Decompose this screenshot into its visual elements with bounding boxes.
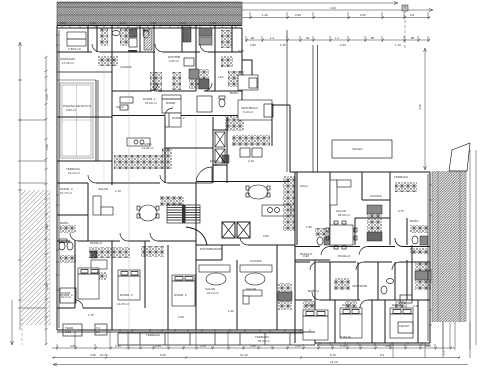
svg-text:1.20: 1.20 — [90, 21, 96, 25]
closet cabinet right — [221, 30, 232, 48]
svg-text:1.95: 1.95 — [210, 21, 216, 25]
svg-text:DORM.: DORM. — [392, 303, 402, 307]
elevators main — [222, 222, 250, 238]
left vertical dimension line x=12 bottom with arrow — [11, 300, 14, 345]
tables low center — [206, 273, 265, 285]
svg-text:2.40: 2.40 — [340, 43, 346, 47]
stairs main — [167, 205, 200, 223]
svg-text:P. BAJA: P. BAJA — [340, 335, 351, 339]
wall x=277 — [276, 245, 278, 330]
wall x=390 — [389, 172, 391, 245]
svg-text:2.10: 2.10 — [248, 159, 254, 163]
closet boxes right wing — [221, 56, 244, 87]
kitchen island — [127, 138, 150, 146]
wall x=295 major — [295, 172, 297, 343]
wall x=75 — [74, 241, 76, 308]
closet row corridor 88 — [89, 247, 130, 258]
wall y=215 left — [57, 214, 88, 216]
svg-text:4.25: 4.25 — [418, 104, 422, 110]
wall y=308 left — [57, 308, 112, 330]
closet row corridor 141 — [141, 246, 164, 257]
svg-text:1.75: 1.75 — [88, 313, 94, 317]
shower below vanity — [129, 38, 137, 47]
wing step to court — [242, 105, 430, 343]
svg-text:1.2: 1.2 — [442, 350, 446, 355]
dimension line y=40 with ticks — [245, 36, 430, 42]
shower box room right — [197, 96, 212, 112]
wall x=165 mid — [164, 117, 166, 183]
wall x=330 — [329, 172, 331, 245]
court room 2 — [238, 100, 273, 120]
closet cabinets x=100 — [100, 28, 108, 46]
walls bottom bedrooms right — [335, 300, 418, 343]
svg-text:0.8: 0.8 — [410, 13, 415, 17]
svg-text:3.05: 3.05 — [385, 344, 391, 348]
wall x=358 low — [357, 262, 359, 300]
closet row corridor — [98, 56, 118, 66]
bath dark right-center — [315, 228, 330, 245]
svg-text:3.25: 3.25 — [115, 344, 121, 348]
svg-text:1.80: 1.80 — [150, 21, 156, 25]
svg-text:DORM.: DORM. — [342, 303, 352, 307]
bath counter x91 — [91, 260, 107, 269]
svg-text:11.20 m²: 11.20 m² — [142, 146, 154, 150]
beds bottom right — [303, 310, 328, 340]
sofa rows terrace — [199, 265, 272, 272]
svg-text:2.20: 2.20 — [413, 304, 419, 308]
dining right block — [326, 221, 357, 249]
svg-text:COCINA: COCINA — [250, 259, 262, 263]
svg-text:1.90: 1.90 — [306, 225, 312, 229]
scattered room labels — [88, 49, 419, 319]
closet column x150 — [150, 72, 181, 92]
svg-text:22.14 m²: 22.14 m² — [207, 291, 219, 295]
svg-text:.95: .95 — [410, 36, 415, 40]
terraza under pool — [66, 167, 80, 175]
toilet right wing — [219, 96, 225, 107]
svg-text:2.75: 2.75 — [340, 344, 346, 348]
svg-text:.85: .85 — [370, 36, 375, 40]
svg-text:TECHO: TECHO — [399, 324, 410, 328]
dining table oval left — [137, 205, 159, 221]
wall x=168 — [167, 245, 169, 330]
kitchen column right block — [367, 205, 382, 241]
court small boxes — [240, 148, 262, 157]
axis line x=104 — [103, 52, 105, 183]
dashed vertical line x=404 — [404, 5, 406, 48]
couch mid room — [165, 113, 181, 127]
svg-text:14.05 m²: 14.05 m² — [117, 302, 129, 306]
wall x=88 — [87, 183, 89, 241]
svg-text:2.85: 2.85 — [250, 344, 256, 348]
wall corridor top wing y=52 — [57, 51, 242, 53]
kitchen stack dark — [278, 283, 292, 310]
svg-text:0.45: 0.45 — [238, 49, 244, 53]
bottom dimension line 2 — [52, 353, 460, 359]
sofa L right block — [330, 180, 351, 205]
svg-text:2.05: 2.05 — [360, 13, 366, 17]
wall gym y=72 — [57, 71, 112, 73]
wall y=218 right — [355, 218, 390, 245]
bath dark boxes — [199, 28, 212, 45]
dining table center — [246, 185, 270, 199]
dark door bar — [128, 50, 137, 53]
vestidor furniture — [67, 32, 86, 51]
door arcs top wing — [92, 44, 212, 116]
wall x=330 low — [329, 262, 331, 300]
svg-text:0.90: 0.90 — [263, 234, 269, 238]
exterior wall top wing — [57, 26, 242, 331]
wall vertical x=215 — [214, 26, 216, 91]
wall x=407 — [406, 218, 408, 300]
svg-text:SALA: SALA — [300, 184, 308, 188]
svg-text:1.10: 1.10 — [395, 43, 401, 47]
svg-text:5.20: 5.20 — [160, 353, 166, 357]
wall x=213 mid — [213, 117, 227, 183]
svg-text:COCINA: COCINA — [370, 194, 382, 198]
wall vertical x=112 — [111, 26, 113, 185]
door arcs lower block — [70, 175, 403, 308]
svg-text:12.10 m²: 12.10 m² — [68, 171, 80, 175]
closets right top — [395, 182, 417, 192]
svg-text:28.06 m²: 28.06 m² — [338, 213, 350, 217]
svg-text:2.80: 2.80 — [45, 144, 49, 150]
svg-text:0.90: 0.90 — [250, 43, 256, 47]
left vertical dimension line x=20 — [18, 42, 22, 330]
grid line x=196 upper — [195, 117, 197, 183]
terraza boxes porch — [63, 324, 107, 336]
dark box mid right — [222, 155, 229, 163]
svg-text:1.10: 1.10 — [115, 189, 121, 193]
texts mid — [140, 116, 185, 150]
court-side jutting rooms — [238, 60, 258, 90]
elevator shaft — [213, 130, 227, 165]
dim numbers scattered — [45, 21, 446, 357]
sofa L center — [243, 290, 262, 304]
svg-text:1.85/2.10: 1.85/2.10 — [68, 47, 81, 51]
mid zone kitchen counters — [114, 148, 172, 169]
svg-text:PASILLO: PASILLO — [338, 254, 351, 258]
door arcs low right — [310, 262, 400, 270]
hatch band left (neighbour boundary) — [21, 190, 50, 325]
svg-text:LAVAND.: LAVAND. — [120, 65, 133, 69]
window ticks top wall — [62, 25, 236, 29]
wall vertical x=88 — [87, 26, 89, 52]
dimension line top third with ticks — [242, 13, 430, 19]
bath dark box x91 — [91, 251, 97, 258]
window ticks right wall — [429, 185, 432, 325]
svg-text:3.50: 3.50 — [60, 21, 66, 25]
svg-text:3.10: 3.10 — [200, 344, 206, 348]
right vertical dimension x=476 — [443, 150, 476, 350]
bed 1 — [78, 268, 99, 299]
svg-text:SALON: SALON — [246, 287, 256, 291]
svg-text:17.05 m²: 17.05 m² — [62, 61, 74, 65]
svg-text:10.25: 10.25 — [100, 353, 108, 357]
bath sink oval — [112, 31, 120, 36]
svg-text:2.90: 2.90 — [70, 344, 76, 348]
svg-text:4.15: 4.15 — [45, 224, 49, 230]
bed 3 — [172, 275, 195, 306]
svg-text:2.10: 2.10 — [180, 21, 186, 25]
corridor wall y=241 left — [57, 240, 196, 242]
closet cabinets x=120 — [120, 28, 129, 46]
wall x=315 low — [314, 260, 316, 330]
dark bath cluster far right low — [415, 262, 431, 290]
extension ticks bottom — [57, 322, 450, 349]
svg-text:2.05: 2.05 — [178, 315, 184, 319]
bed room1 — [162, 95, 181, 113]
wall vertical x=182 — [181, 26, 183, 52]
svg-text:2.90 m²: 2.90 m² — [212, 163, 222, 167]
svg-text:TERRAZA: TERRAZA — [146, 333, 160, 337]
svg-text:TERRAZA: TERRAZA — [394, 175, 408, 179]
extension ticks top dims — [246, 12, 428, 42]
window ticks bottom wall right — [320, 342, 422, 345]
hatch band top (existing wall above plan) — [57, 2, 242, 25]
closet block center-low — [334, 278, 350, 290]
wall x=412 low — [411, 245, 413, 300]
wall x=378 low — [377, 262, 379, 300]
svg-text:DORM.: DORM. — [166, 101, 176, 105]
svg-text:1.20: 1.20 — [228, 309, 234, 313]
svg-text:9.60 m²: 9.60 m² — [66, 108, 76, 112]
svg-text:2.45: 2.45 — [120, 21, 126, 25]
window ticks left wall — [56, 35, 59, 290]
svg-text:3.60: 3.60 — [45, 284, 49, 290]
closet 2x2 right mid — [225, 115, 244, 131]
svg-text:1.20: 1.20 — [262, 13, 268, 17]
label box low right — [400, 295, 412, 303]
texts lower block — [60, 175, 419, 343]
wall top wing bottom y=117 — [57, 116, 242, 118]
dashed line bottom left — [21, 318, 23, 345]
dimension line top second — [242, 6, 433, 12]
wall x=362 — [362, 172, 390, 200]
svg-text:55.20 m²: 55.20 m² — [258, 339, 270, 343]
bottom dimension line 1 with ticks — [52, 347, 455, 350]
svg-text:SALA: SALA — [116, 105, 124, 109]
right lower verticals below building — [393, 150, 470, 358]
svg-text:BAÑO: BAÑO — [60, 220, 69, 225]
svg-text:1.2: 1.2 — [270, 36, 275, 40]
svg-text:3.20: 3.20 — [295, 344, 301, 348]
wall y=300 right block — [295, 299, 430, 301]
closet row x160 — [160, 196, 184, 206]
dimension line top outer — [57, 2, 398, 5]
svg-text:DORM.: DORM. — [306, 303, 316, 307]
wall x=237 — [236, 260, 238, 330]
svg-text:2.45: 2.45 — [155, 344, 161, 348]
wall x=196 major — [195, 183, 197, 330]
hatch band right (neighbour boundary) — [432, 171, 466, 322]
svg-text:1.1: 1.1 — [335, 36, 340, 40]
axis line x=129 — [128, 26, 130, 348]
dark vanity — [129, 29, 137, 37]
wall x=272 court — [271, 104, 273, 146]
svg-text:BAÑO: BAÑO — [410, 218, 419, 223]
svg-text:PASILLO: PASILLO — [90, 241, 103, 245]
connector lines left dims — [18, 120, 46, 308]
svg-text:0.90: 0.90 — [303, 254, 309, 258]
closet row x91 — [91, 272, 107, 280]
wall x=97 — [96, 26, 98, 52]
terrace slab bottom — [118, 333, 315, 345]
svg-text:8.4: 8.4 — [380, 353, 385, 357]
svg-text:2.05 m²: 2.05 m² — [169, 59, 179, 63]
svg-text:1.25: 1.25 — [280, 43, 286, 47]
laundry appliance cluster — [189, 69, 209, 89]
svg-text:6.10 m²: 6.10 m² — [243, 110, 253, 114]
wall vertical x=232 — [231, 26, 233, 52]
wall x=222 — [221, 245, 223, 260]
shower dark box — [183, 27, 191, 42]
svg-text:DORM. 6: DORM. 6 — [174, 293, 187, 297]
svg-text:0.75: 0.75 — [398, 209, 404, 213]
wc ovals aseo — [59, 239, 73, 250]
svg-text:DORM. 5: DORM. 5 — [120, 293, 133, 297]
duct shaft hatch — [144, 28, 152, 50]
sala small rects — [120, 97, 133, 110]
svg-text:.45: .45 — [305, 36, 310, 40]
svg-text:VESTIDOR: VESTIDOR — [352, 284, 368, 288]
bath fixtures low right — [381, 279, 394, 295]
wall x=145 — [144, 241, 146, 308]
pool — [57, 80, 96, 161]
closet column x283 — [283, 176, 295, 231]
svg-text:21.10: 21.10 — [330, 360, 338, 364]
bath toilet — [143, 28, 149, 38]
closet boxes above beds — [303, 301, 407, 309]
entry arc — [196, 167, 212, 183]
svg-text:SALON: SALON — [98, 187, 108, 191]
window ticks bottom wall left — [120, 329, 310, 332]
kitchen counter center — [262, 205, 291, 216]
svg-text:4.35: 4.35 — [90, 353, 96, 357]
closet row left y255 — [60, 255, 76, 263]
svg-text:TECHO: TECHO — [352, 147, 363, 151]
bottom exterior — [57, 330, 430, 343]
wall x=395 low — [394, 262, 396, 300]
sofa L living left — [93, 196, 113, 215]
square marker top right — [402, 5, 408, 11]
svg-text:BAÑO 2: BAÑO 2 — [308, 288, 319, 293]
svg-text:3.25: 3.25 — [45, 94, 49, 100]
svg-text:DISTRIBUIDOR: DISTRIBUIDOR — [200, 247, 222, 251]
terraza box right — [398, 322, 413, 333]
bath cluster far right — [410, 225, 428, 254]
svg-text:DORM. 4: DORM. 4 — [60, 293, 73, 297]
left vertical dimension line x=46 with ticks — [45, 56, 48, 345]
svg-text:10.70 m²: 10.70 m² — [60, 191, 72, 195]
right block lower rooms walls — [295, 261, 430, 263]
closet row left x60 — [60, 225, 76, 233]
wall vertical x=154 — [153, 26, 155, 91]
svg-text:DORM. 2: DORM. 2 — [172, 116, 185, 120]
wall y=260 center — [196, 259, 330, 261]
svg-text:0.90: 0.90 — [295, 13, 301, 17]
small fixture box corridor — [184, 58, 194, 66]
svg-text:15.20 m²: 15.20 m² — [145, 101, 157, 105]
wall top wing mid y=91 — [112, 90, 242, 92]
terrace vertical lines in court x=287,313,318 — [287, 30, 318, 172]
wall y=150 mid — [165, 147, 213, 149]
dorm label box lowleft — [60, 288, 76, 303]
wedge right top — [449, 143, 470, 171]
techo rect in court — [332, 140, 392, 158]
svg-text:12.40: 12.40 — [240, 353, 248, 357]
svg-text:LAV.: LAV. — [218, 75, 224, 79]
corridor wall y=245 right — [196, 245, 430, 247]
curved wall entry — [186, 227, 207, 245]
right vertical dimension x=425 — [418, 48, 427, 170]
svg-text:6.15: 6.15 — [330, 353, 336, 357]
svg-text:BAÑO: BAÑO — [230, 90, 239, 95]
svg-text:2.60: 2.60 — [425, 344, 431, 348]
texts top wing — [60, 55, 239, 109]
svg-text:4.40: 4.40 — [330, 6, 336, 10]
wall vertical x=196 — [195, 26, 197, 91]
wall x=112 — [111, 241, 113, 330]
court closet row — [232, 135, 270, 146]
bed 2 — [118, 270, 140, 300]
double line exterior walls — [57, 30, 430, 345]
wall vertical x=140 — [139, 26, 141, 52]
wall y=183 lower block top — [57, 182, 290, 184]
bottom dimension line 3 — [53, 360, 468, 366]
svg-text:.90: .90 — [250, 36, 255, 40]
pool deck wall — [96, 80, 98, 161]
